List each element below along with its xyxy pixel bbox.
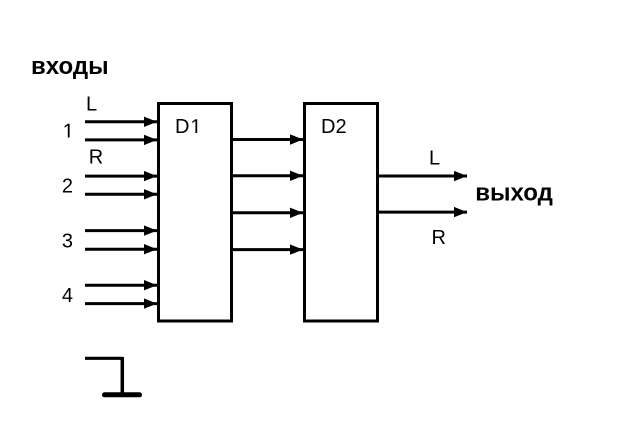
wire input 4L arrow bbox=[85, 284, 157, 287]
svg-text:L: L bbox=[86, 93, 97, 115]
wire D1-D2 bus 3 arrow bbox=[233, 211, 303, 214]
svg-text:4: 4 bbox=[62, 285, 73, 307]
svg-text:выход: выход bbox=[475, 180, 553, 207]
wire output R arrow bbox=[379, 211, 468, 214]
label 1 bbox=[65, 124, 70, 138]
wire input 1R arrow bbox=[85, 138, 157, 141]
clock/step symbol top segment bbox=[85, 357, 122, 360]
wire input 2R arrow bbox=[85, 193, 157, 196]
svg-text:L: L bbox=[429, 147, 440, 169]
wire input 3R arrow bbox=[85, 248, 157, 251]
svg-text:D2: D2 bbox=[321, 116, 347, 138]
clock/step symbol vertical segment bbox=[121, 357, 125, 395]
svg-text:D: D bbox=[175, 116, 189, 138]
svg-text:входы: входы bbox=[31, 53, 109, 80]
wire D1-D2 bus 4 arrow bbox=[233, 248, 303, 251]
svg-text:2: 2 bbox=[62, 176, 73, 198]
clock/step symbol ground bar bbox=[105, 392, 140, 397]
block D1 bbox=[159, 104, 232, 322]
wire input 4R arrow bbox=[85, 302, 157, 305]
wire output L arrow bbox=[379, 175, 468, 178]
wire input 2L arrow bbox=[85, 175, 157, 178]
wire input 3L arrow bbox=[85, 229, 157, 232]
svg-text:R: R bbox=[432, 227, 446, 249]
svg-text:R: R bbox=[89, 147, 103, 169]
svg-text:3: 3 bbox=[62, 230, 73, 252]
wire D1-D2 bus 1 arrow bbox=[233, 138, 303, 141]
wire D1-D2 bus 2 arrow bbox=[233, 174, 303, 177]
block D2 bbox=[305, 104, 378, 322]
wire input 1L arrow bbox=[85, 120, 157, 123]
